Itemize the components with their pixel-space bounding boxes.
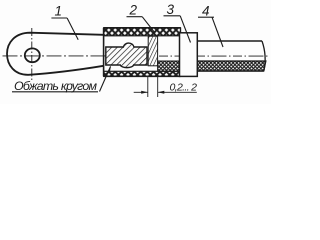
- conductor strands white underlay: [106, 43, 147, 68]
- wire insulation braid inside barrel: [158, 61, 181, 71]
- dimension line right part: [158, 91, 197, 93]
- dimension arrow right: [158, 91, 165, 94]
- label 1 underline: [51, 17, 67, 19]
- label 4 underline: [198, 16, 214, 18]
- barrel top wall (cross-hatched, crimped): [104, 28, 181, 36]
- cable braid (cross-hatched): [197, 61, 266, 71]
- barrel bottom wall (cross-hatched, crimped): [104, 71, 181, 76]
- conductor strands (hatched, with crimp bulges): [106, 43, 147, 68]
- label 3 underline: [164, 15, 181, 17]
- note underline: [12, 91, 98, 93]
- svg-text:Обжать кругом: Обжать кругом: [14, 79, 98, 93]
- svg-text:3: 3: [167, 2, 175, 17]
- lug hole: [25, 48, 40, 62]
- barrel left end edge: [103, 28, 105, 77]
- dimension line left part: [134, 91, 148, 93]
- label 3 leader: [180, 16, 190, 43]
- barrel outline bottom: [104, 75, 181, 77]
- svg-text:4: 4: [202, 3, 210, 18]
- svg-text:2: 2: [129, 3, 138, 18]
- dimension extension line right: [157, 77, 159, 97]
- lug 1 outline: [7, 33, 104, 75]
- main axis centerline: [3, 55, 149, 57]
- dimension extension line left: [147, 77, 149, 97]
- cable bottom edge: [197, 70, 264, 72]
- label 4 leader: [212, 17, 223, 47]
- svg-text:1: 1: [55, 4, 63, 19]
- cable end arc: [262, 41, 265, 71]
- note leader: [100, 67, 111, 92]
- barrel outline top: [104, 27, 181, 29]
- label 1 leader: [67, 18, 78, 40]
- insulating sleeve 3 (unsectioned, white): [180, 33, 198, 77]
- lug vertical centerline: [31, 28, 33, 82]
- dimension arrow left: [141, 91, 148, 94]
- label 2 leader: [142, 17, 155, 33]
- label 2 underline: [127, 16, 143, 18]
- note leader arrowhead: [108, 66, 111, 73]
- insulation gap block: [148, 36, 157, 66]
- svg-text:0,2... 2: 0,2... 2: [170, 82, 198, 94]
- barrel right end edge: [180, 28, 182, 77]
- cable top edge: [197, 40, 262, 42]
